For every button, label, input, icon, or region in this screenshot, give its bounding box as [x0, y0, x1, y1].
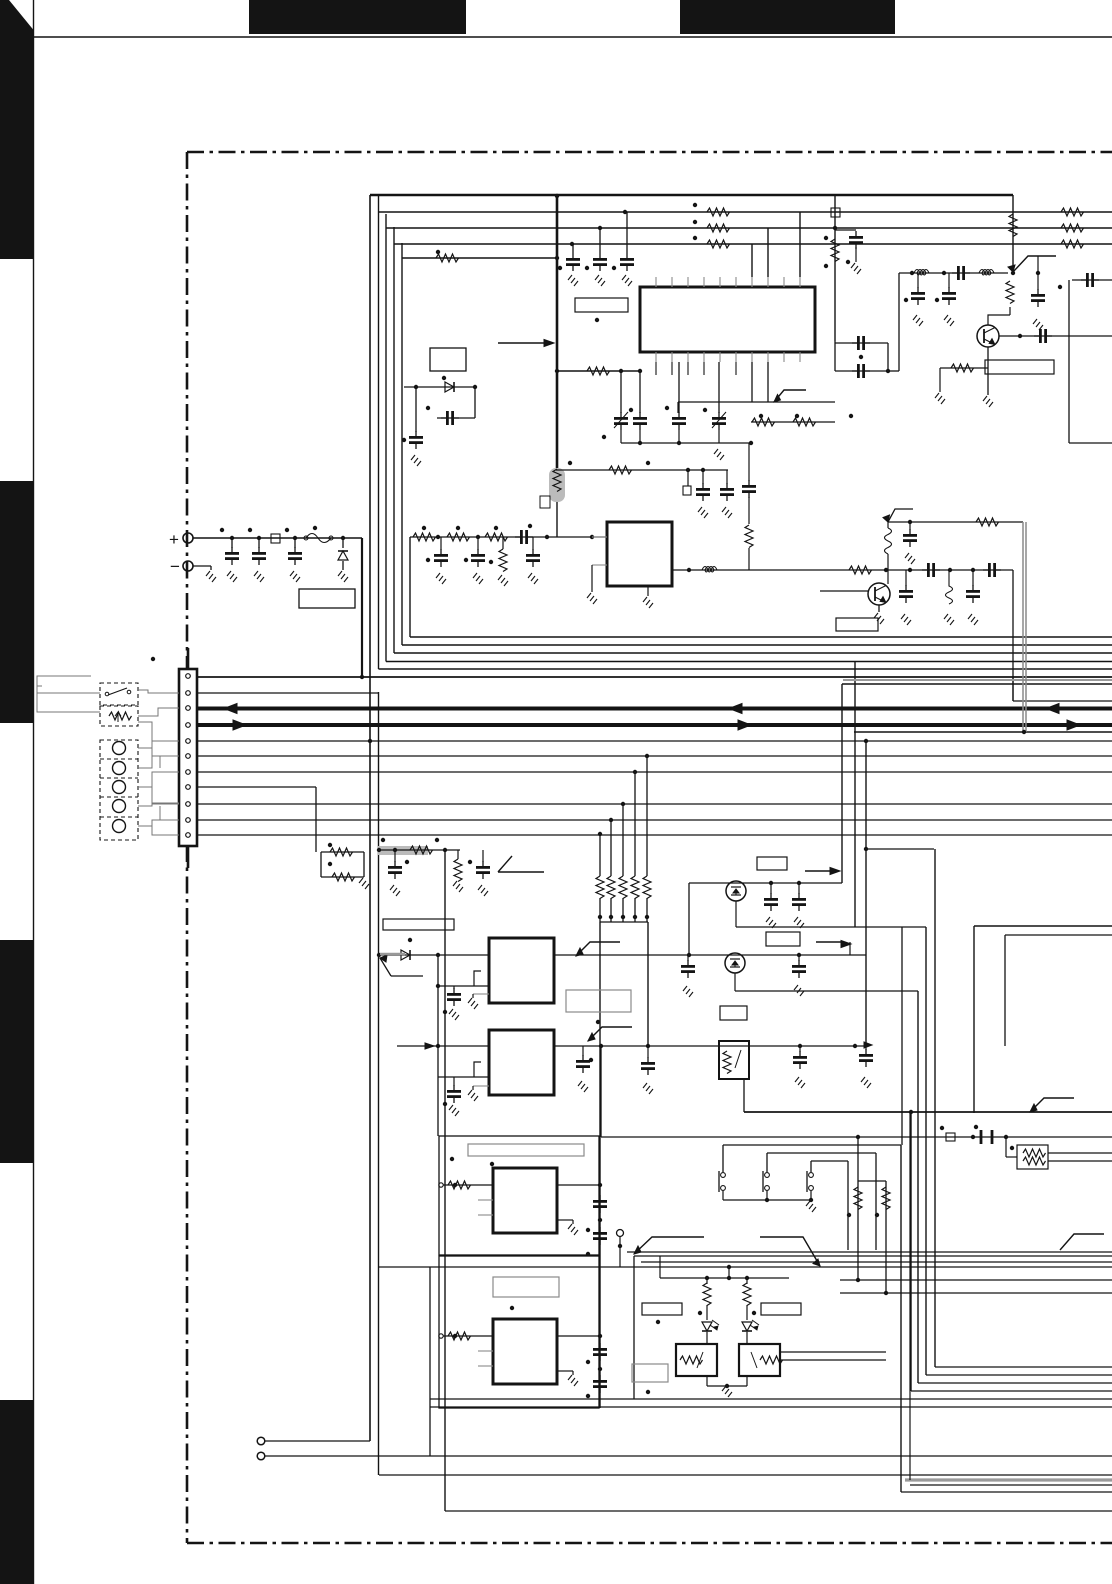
svg-text:−: − — [170, 557, 180, 576]
svg-text:+: + — [169, 530, 179, 549]
